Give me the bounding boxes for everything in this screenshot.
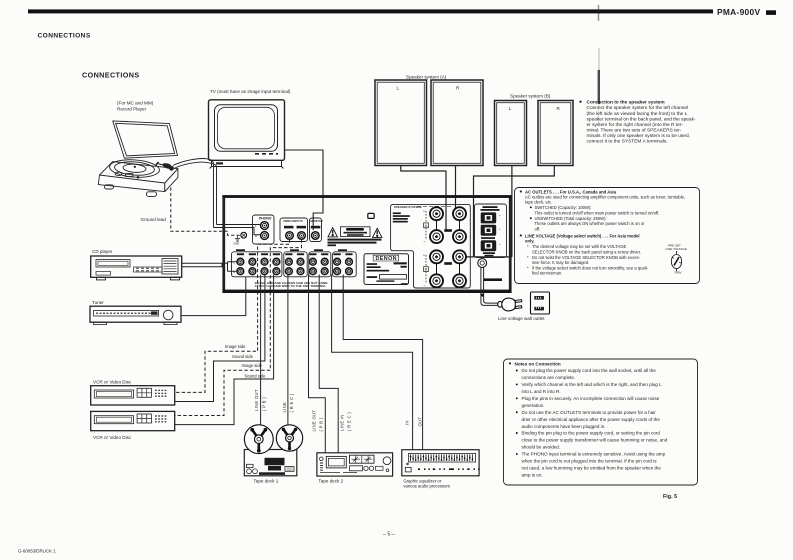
note: connection to speaker system	[579, 100, 696, 145]
TV set	[209, 100, 285, 169]
input jacks TAPE1 PB (top/bottom)	[286, 258, 293, 265]
svg-text:VCR or Video Disc: VCR or Video Disc	[93, 435, 132, 440]
input jacks TAPE2 PB (top/bottom)	[310, 258, 317, 265]
svg-text:LINE: LINE	[282, 402, 287, 413]
ground terminal	[241, 232, 247, 238]
svg-text:( R E C ): ( R E C )	[347, 412, 352, 431]
top rule bar	[28, 9, 713, 13]
svg-text:Speaker system (A): Speaker system (A)	[406, 75, 447, 80]
speaker terminal B R-	[453, 274, 466, 287]
svg-text:These outlets are always O: These outlets are always ON whether powe…	[535, 221, 646, 226]
svg-text:Binding the pin plug to t: Binding the pin plug to the power supply…	[522, 431, 661, 436]
svg-text:MONITOR: MONITOR	[311, 219, 323, 223]
svg-text:Connection to the speaker syst: Connection to the speaker system	[587, 100, 665, 106]
system B marker	[424, 255, 429, 283]
monitor out box	[310, 218, 322, 242]
svg-text:VCR or Video Disc: VCR or Video Disc	[93, 380, 132, 385]
speaker terminal A R-	[453, 230, 466, 243]
caution label box	[341, 227, 371, 237]
svg-text:240V: 240V	[675, 271, 682, 275]
input jacks ADP IN (top/bottom)	[346, 258, 353, 265]
svg-text:LINE VOLTAGE: LINE VOLTAGE	[666, 247, 687, 251]
svg-text:TV (must have an image input t: TV (must have an image input terminal)	[210, 89, 291, 94]
svg-text:– 5 –: – 5 –	[383, 532, 395, 538]
svg-text:CONNECTIONS: CONNECTIONS	[38, 33, 91, 40]
MADE IN JAPAN	[484, 278, 502, 281]
input jack group boxes	[232, 252, 357, 277]
voltage selector knob illustration	[666, 244, 687, 275]
svg-text:Do not use the AC OUTLETS: Do not use the AC OUTLETS terminals to p…	[522, 410, 657, 415]
svg-text:close to the power supply tran: close to the power supply transformer wi…	[522, 438, 668, 443]
turntable signal cable pair	[173, 158, 217, 227]
svg-text:off.: off.	[535, 226, 541, 231]
tuner wire to amp	[181, 277, 246, 316]
svg-text:Tape deck 1: Tape deck 1	[254, 479, 279, 484]
svg-text:LINE OUT: LINE OUT	[312, 410, 317, 432]
wire: VCR1 sound side	[175, 275, 423, 453]
svg-text:not used, a low humming m: not used, a low humming may be emitted f…	[522, 466, 662, 471]
video jack VTR-2	[298, 232, 306, 240]
speaker wires	[401, 166, 555, 257]
svg-text:GND: GND	[234, 242, 240, 246]
svg-text:connections are complete.: connections are complete.	[522, 375, 576, 380]
svg-text:only.: only.	[525, 239, 534, 244]
phono jack L	[261, 222, 269, 230]
svg-text:sive force. It may be damaged.: sive force. It may be damaged.	[532, 260, 589, 265]
svg-text:This outlet is turned on/off w: This outlet is turned on/off when main p…	[535, 210, 660, 215]
wall outlet	[531, 292, 550, 314]
svg-text:Do not plug the power sup: Do not plug the power supply cord into t…	[522, 368, 657, 373]
wire: equalizer in	[332, 275, 413, 450]
speaker A left	[375, 80, 427, 166]
video inputs box	[280, 218, 308, 242]
phono jack R	[261, 232, 269, 240]
speaker terminal A L+	[430, 207, 443, 220]
ground symbol	[235, 236, 240, 241]
fuse holder	[368, 213, 374, 218]
svg-text:fied serviceman.: fied serviceman.	[532, 271, 563, 276]
AC outlets panel	[475, 204, 507, 258]
svg-text:(For MC and MM): (For MC and MM)	[117, 101, 154, 106]
svg-text:The PHONO input terminal is ex: The PHONO input terminal is extremely se…	[522, 452, 666, 457]
svg-text:AC OUTLETS . . . For U.S.A., C: AC OUTLETS . . . For U.S.A., Canada and …	[525, 189, 617, 194]
output rating text	[393, 212, 410, 222]
svg-text:connect it to the SYSTEM A ter: connect it to the SYSTEM A terminals.	[587, 139, 668, 145]
wire: tape deck 2 line out	[309, 275, 326, 453]
svg-text:SPEAKER SYSTEMS: SPEAKER SYSTEMS	[394, 205, 422, 209]
svg-text:+: +	[499, 227, 501, 231]
svg-text:into L and R into R.: into L and R into R.	[522, 389, 561, 394]
graphic equalizer	[402, 450, 479, 476]
tape deck 1 controls	[265, 458, 285, 471]
tonearm	[156, 162, 174, 171]
wire: tape deck 2 line in	[319, 275, 338, 453]
speaker terminal A R+	[453, 207, 466, 220]
svg-text:Sound side: Sound side	[232, 354, 254, 359]
tape reel right	[276, 425, 302, 451]
AC outlet switched	[481, 212, 497, 223]
svg-text:minal. There are two s: minal. There are two sets of SPEAKERS te…	[587, 127, 682, 133]
CD player wires to amp	[182, 262, 237, 272]
svg-text:Tape deck 2: Tape deck 2	[318, 479, 343, 484]
input jacks TAPE1 REC (top/bottom)	[297, 258, 304, 265]
svg-text:Ground lead: Ground lead	[141, 217, 167, 222]
scan streak artifact	[598, 5, 599, 21]
input jacks AUX (top/bottom)	[273, 258, 280, 265]
svg-text:(the left side as viewed: (the left side as viewed facing the fron…	[587, 111, 688, 117]
wire: VCR2 sound side	[175, 275, 274, 425]
svg-text:IN: IN	[405, 420, 410, 425]
svg-text:CONNECTIONS: CONNECTIONS	[82, 71, 140, 80]
svg-text:CAUTION: CAUTION	[350, 228, 360, 231]
svg-text:speaker terminal on the ba: speaker terminal on the back panel, and …	[587, 116, 696, 122]
svg-text:G-60053/DRUCK 1: G-60053/DRUCK 1	[18, 549, 56, 554]
AC outlets info box	[515, 188, 700, 284]
svg-text:L: L	[465, 284, 467, 288]
AC outlet unswitched 1	[481, 225, 497, 236]
video jack VTR-1	[286, 232, 294, 240]
speaker terminals box	[391, 204, 471, 288]
svg-text:CD player: CD player	[92, 249, 113, 254]
svg-text:L: L	[397, 86, 400, 91]
AC plug	[498, 298, 522, 311]
speaker B left	[495, 101, 527, 166]
amplifier rear panel outline	[224, 196, 511, 291]
speaker terminal B R+	[453, 250, 466, 263]
TV to monitor-out wire	[285, 150, 324, 230]
svg-text:audio components have been plu: audio components have been plugged in.	[522, 424, 606, 429]
svg-text:R: R	[233, 270, 235, 274]
GND labels between terminals	[444, 229, 452, 232]
svg-text:OUT: OUT	[418, 417, 423, 427]
jack column labels	[236, 249, 353, 255]
svg-text:Image side: Image side	[225, 344, 246, 349]
input jacks PHONO (top/bottom)	[237, 258, 244, 265]
svg-text:Plug the pins in securely.: Plug the pins in securely. An incomplete…	[522, 396, 660, 401]
svg-text:PHONO: PHONO	[259, 217, 272, 221]
PHONO input box	[253, 215, 275, 244]
input jacks CD (top/bottom)	[249, 258, 256, 265]
svg-text:Record Player: Record Player	[117, 107, 147, 112]
input jacks TAPE2 REC (top/bottom)	[321, 258, 328, 265]
svg-text:Connect the speaker system: Connect the speaker system for the left …	[587, 105, 689, 111]
speaker terminal B L-	[430, 274, 443, 287]
VCR/video disc player 1	[91, 386, 175, 405]
svg-text:tape deck, etc.: tape deck, etc.	[525, 200, 552, 205]
svg-text:Notes on Connection: Notes on Connection	[515, 361, 561, 366]
svg-text:Tuner: Tuner	[92, 300, 104, 305]
svg-text:Sound side: Sound side	[245, 374, 267, 379]
DENON name plate	[364, 254, 409, 285]
monitor out jack	[312, 232, 320, 240]
power cord grommet	[478, 259, 487, 268]
svg-text:LINE OUT: LINE OUT	[254, 389, 259, 411]
tape reel left	[244, 425, 273, 454]
svg-text:( R E C ): ( R E C )	[289, 393, 294, 412]
wire: equalizer out	[343, 275, 422, 450]
AC outlet unswitched 2	[481, 240, 497, 251]
svg-text:L: L	[509, 106, 512, 111]
svg-text:( P B ): ( P B )	[262, 397, 267, 411]
caution text lines	[328, 239, 382, 247]
svg-text:should be avoided.: should be avoided.	[522, 445, 561, 450]
svg-text:+: +	[499, 242, 501, 246]
svg-text:Speaker system (B): Speaker system (B)	[510, 94, 551, 99]
wire: VCR2 image side (dashed)	[175, 239, 302, 415]
caution warning triangle left	[328, 228, 337, 237]
svg-text:DENON: DENON	[376, 256, 397, 262]
tape deck 2 (cassette deck)	[317, 453, 393, 476]
system A marker	[424, 211, 429, 240]
svg-text:er system for the right c: er system for the right channel (into th…	[587, 122, 684, 128]
power cord	[480, 267, 498, 305]
tape deck 1 (reel-to-reel)	[244, 450, 296, 476]
svg-text:Line voltage wall outlet: Line voltage wall outlet	[498, 316, 545, 321]
caution warning triangle right	[373, 228, 382, 237]
svg-text:drier or other electrical: drier or other electrical appliance afte…	[522, 417, 661, 422]
VCR/video disc player 2	[91, 411, 175, 430]
svg-text:Image side: Image side	[242, 363, 263, 368]
svg-text:minals. If only one speake: minals. If only one speaker system is to…	[587, 133, 690, 139]
record player (turntable, open lid)	[98, 121, 178, 197]
svg-text:VIDEO INPUTS: VIDEO INPUTS	[283, 219, 303, 223]
wire: tape deck 1 line in	[287, 275, 289, 429]
svg-text:+: +	[499, 213, 501, 217]
speaker B right	[538, 101, 573, 166]
phono signal leads into amp	[214, 225, 262, 235]
svg-text:generation.: generation.	[522, 403, 545, 408]
svg-text:+: +	[423, 210, 425, 214]
input jacks TUNER (top/bottom)	[261, 258, 268, 265]
svg-text:Verify which channel is the le: Verify which channel is the left and whi…	[522, 382, 663, 387]
speaker A right	[431, 80, 483, 166]
wire: tape deck 1 line out	[260, 275, 262, 429]
input jacks ADP OUT (top/bottom)	[334, 258, 341, 265]
wire: VCR1 image side (dashed)	[175, 239, 302, 415]
ground lead (dashed)	[171, 188, 241, 236]
svg-text:Fig. 5: Fig. 5	[663, 494, 677, 500]
svg-text:LINE IN: LINE IN	[340, 414, 345, 431]
svg-text:+: +	[423, 254, 425, 258]
speaker terminal A L-	[430, 230, 443, 243]
svg-text:Graphic equalizer or: Graphic equalizer or	[403, 478, 441, 483]
svg-text:various audio processors: various audio processors	[403, 484, 450, 489]
svg-text:LINE VOLTAGE (Voltage selec: LINE VOLTAGE (Voltage select switch) . .…	[525, 233, 640, 238]
svg-text:( P B ): ( P B )	[319, 417, 324, 431]
svg-text:amp is on.: amp is on.	[522, 472, 543, 477]
Tuner	[90, 306, 181, 324]
CD player	[91, 256, 182, 280]
notes on connection box	[504, 359, 698, 485]
speaker terminal B L+	[430, 250, 443, 263]
svg-text:when the pin cord is not: when the pin cord is not plugged into th…	[522, 459, 658, 464]
svg-text:SELECTOR KNOB on the back pane: SELECTOR KNOB on the back panel using a …	[532, 249, 641, 254]
svg-text:PMA-900V: PMA-900V	[717, 7, 760, 17]
